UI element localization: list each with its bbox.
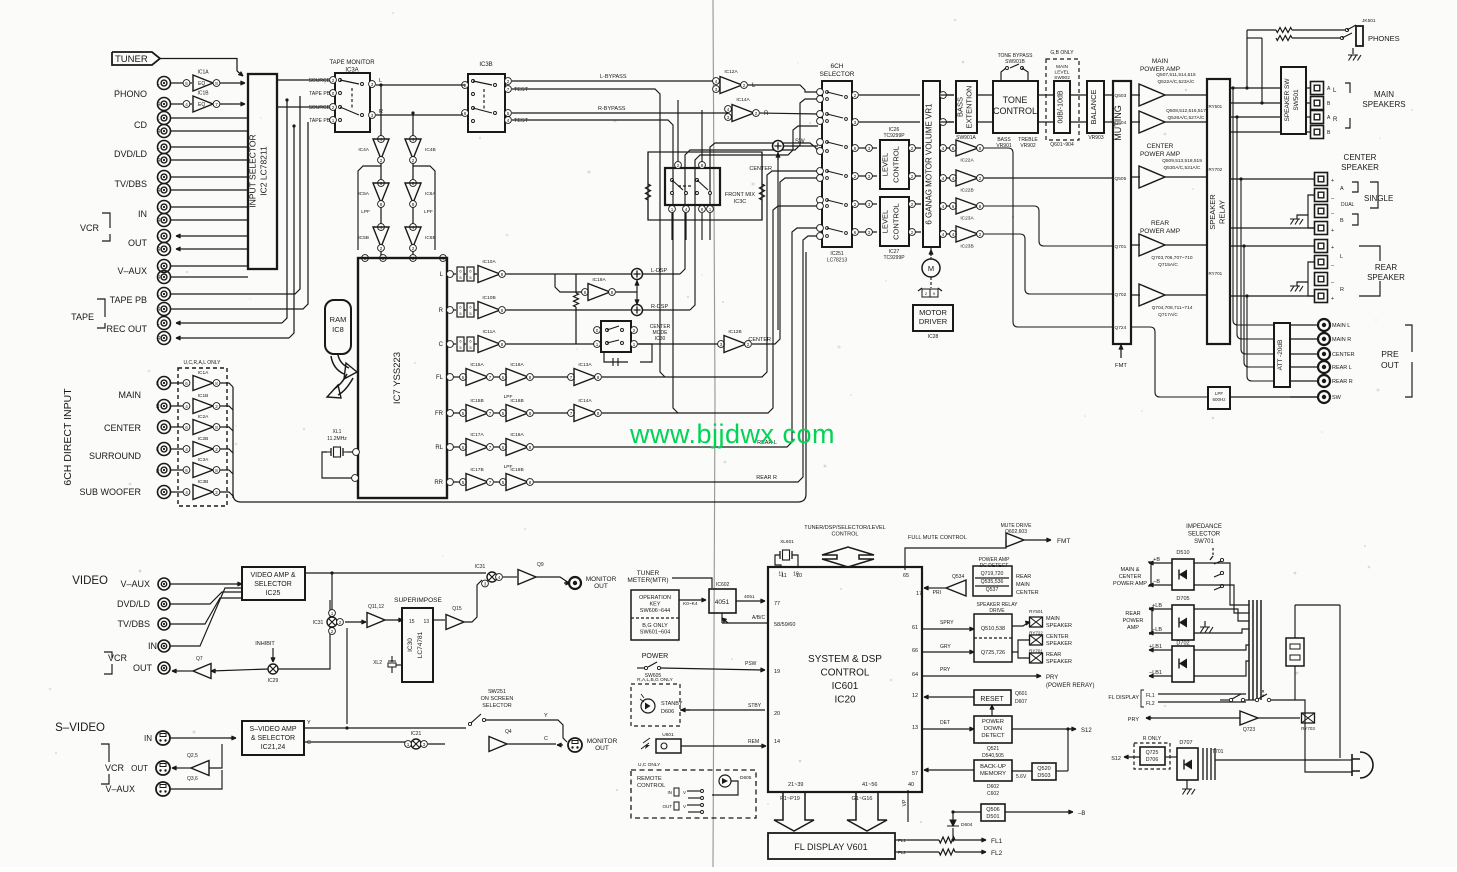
- svg-text:LPF: LPF: [361, 209, 370, 215]
- svg-text:FL: FL: [436, 375, 444, 381]
- svg-text:6: 6: [185, 425, 188, 430]
- svg-text:4: 4: [727, 107, 730, 112]
- svg-text:+: +: [1331, 178, 1334, 184]
- svg-text:D605: D605: [740, 775, 752, 781]
- svg-text:5: 5: [185, 81, 188, 86]
- svg-text:3: 3: [868, 230, 871, 235]
- svg-text:IC28: IC28: [928, 334, 939, 340]
- svg-text:4: 4: [185, 447, 188, 452]
- svg-text:Q506: Q506: [986, 807, 999, 813]
- svg-text:MEMORY: MEMORY: [980, 771, 1006, 777]
- svg-text:0: 0: [332, 91, 335, 96]
- svg-text:IN: IN: [144, 734, 152, 743]
- svg-text:XL1: XL1: [333, 429, 342, 435]
- svg-text:IC14A: IC14A: [578, 398, 592, 404]
- svg-text:FL2: FL2: [1146, 701, 1155, 707]
- svg-text:6CH DIRECT INPUT: 6CH DIRECT INPUT: [62, 388, 74, 486]
- svg-text:IC3C: IC3C: [734, 199, 747, 205]
- svg-text:IC10A: IC10A: [482, 259, 496, 265]
- svg-text:S–VIDEO AMP: S–VIDEO AMP: [249, 726, 296, 733]
- svg-text:8: 8: [215, 81, 218, 86]
- svg-text:REAR R: REAR R: [1332, 379, 1353, 385]
- svg-text:Q715A/C: Q715A/C: [1158, 262, 1178, 268]
- svg-text:OUT: OUT: [131, 764, 148, 773]
- svg-text:6: 6: [584, 290, 587, 295]
- svg-text:B,G ONLY: B,G ONLY: [642, 623, 668, 629]
- svg-text:G1~G16: G1~G16: [852, 796, 873, 802]
- svg-text:6CH: 6CH: [830, 63, 843, 70]
- svg-text:20: 20: [774, 711, 780, 717]
- svg-text:R: R: [157, 129, 161, 135]
- svg-text:3: 3: [720, 342, 723, 347]
- svg-text:CENTER: CENTER: [1344, 153, 1377, 162]
- svg-text:3: 3: [868, 146, 871, 151]
- svg-text:CONTROL: CONTROL: [892, 203, 901, 240]
- svg-text:8: 8: [215, 468, 218, 473]
- svg-text:+LB: +LB: [1152, 603, 1162, 609]
- svg-text:FMT: FMT: [1115, 363, 1127, 369]
- svg-text:8: 8: [701, 207, 704, 212]
- svg-text:–B: –B: [1078, 811, 1085, 817]
- svg-text:SW: SW: [1332, 395, 1342, 401]
- svg-text:IC1A: IC1A: [198, 370, 209, 376]
- svg-text:2: 2: [755, 111, 758, 116]
- svg-text:IC30: IC30: [655, 336, 666, 342]
- svg-text:Q505: Q505: [1115, 176, 1127, 182]
- svg-text:L: L: [1340, 254, 1343, 260]
- svg-text:OUT: OUT: [1381, 360, 1399, 370]
- svg-text:77: 77: [774, 601, 780, 607]
- svg-text:C: C: [439, 342, 444, 348]
- svg-text:B: B: [1340, 218, 1344, 224]
- svg-text:STBY: STBY: [748, 703, 762, 709]
- svg-text:A: A: [1340, 186, 1344, 192]
- svg-text:IC22A: IC22A: [960, 158, 974, 164]
- svg-text:R: R: [764, 111, 769, 117]
- svg-text:MAIN &: MAIN &: [1121, 567, 1140, 573]
- svg-text:DRIVE: DRIVE: [989, 608, 1005, 614]
- svg-text:EQ: EQ: [198, 81, 205, 87]
- svg-text:CENTER: CENTER: [1147, 143, 1174, 150]
- svg-text:1: 1: [709, 207, 712, 212]
- svg-text:IC25: IC25: [266, 590, 281, 597]
- svg-text:PRY: PRY: [1046, 675, 1058, 681]
- svg-text:EXTENTION: EXTENTION: [965, 86, 974, 129]
- svg-text:IC601: IC601: [832, 681, 859, 692]
- svg-text:REC OUT: REC OUT: [107, 324, 148, 334]
- svg-text:8: 8: [529, 480, 532, 485]
- svg-text:PRY: PRY: [1128, 717, 1140, 723]
- svg-text:R: R: [156, 469, 160, 475]
- svg-text:2: 2: [911, 146, 914, 151]
- svg-text:4: 4: [715, 79, 718, 84]
- svg-text:IC31: IC31: [475, 564, 486, 570]
- svg-text:RELAY: RELAY: [1218, 200, 1227, 224]
- svg-text:IC1B: IC1B: [198, 393, 209, 399]
- svg-text:8: 8: [380, 202, 383, 207]
- svg-text:LPF: LPF: [1215, 391, 1224, 396]
- svg-text:8: 8: [215, 425, 218, 430]
- svg-text:RY703: RY703: [1301, 726, 1315, 731]
- svg-text:INPUT SELECTOR: INPUT SELECTOR: [248, 134, 258, 207]
- svg-text:R-DSP: R-DSP: [651, 304, 668, 310]
- svg-text:2: 2: [380, 246, 383, 251]
- svg-text:D604: D604: [961, 822, 973, 828]
- svg-text:L: L: [157, 321, 160, 327]
- svg-text:58/59/60: 58/59/60: [774, 622, 795, 628]
- svg-text:2: 2: [380, 158, 383, 163]
- svg-text:Q521: Q521: [987, 746, 999, 752]
- svg-text:8: 8: [529, 445, 532, 450]
- svg-text:Q11,12: Q11,12: [368, 604, 384, 610]
- svg-text:4: 4: [507, 118, 510, 123]
- svg-text:MAIN: MAIN: [1056, 64, 1069, 70]
- svg-text:LPF: LPF: [504, 394, 513, 400]
- svg-text:S12: S12: [1081, 728, 1092, 734]
- svg-text:3: 3: [727, 115, 730, 120]
- svg-text:8: 8: [597, 375, 600, 380]
- svg-text:TAPE PB: TAPE PB: [110, 295, 147, 305]
- svg-text:U,C,R,A,L ONLY: U,C,R,A,L ONLY: [184, 360, 222, 366]
- svg-text:3: 3: [423, 742, 426, 747]
- svg-text:IC3B: IC3B: [198, 479, 209, 485]
- svg-text:SOURCE: SOURCE: [309, 78, 331, 84]
- svg-text:IN: IN: [148, 641, 157, 651]
- svg-text:Q15: Q15: [452, 606, 462, 612]
- svg-text:+: +: [1331, 245, 1334, 251]
- svg-text:61: 61: [912, 625, 918, 631]
- svg-text:1: 1: [407, 742, 410, 747]
- svg-text:LPF: LPF: [504, 464, 513, 470]
- svg-text:Q3,6: Q3,6: [187, 776, 198, 782]
- svg-text:D540,505: D540,505: [982, 753, 1004, 759]
- svg-text:V: V: [683, 804, 686, 809]
- svg-text:1: 1: [332, 118, 335, 123]
- svg-text:RY701: RY701: [1029, 649, 1043, 654]
- svg-text:4: 4: [952, 232, 955, 237]
- svg-text:14: 14: [774, 739, 780, 745]
- svg-text:SURROUND: SURROUND: [89, 451, 142, 461]
- svg-text:2: 2: [854, 174, 857, 179]
- svg-text:POWER AMP: POWER AMP: [1140, 151, 1180, 158]
- svg-text:SELECTOR: SELECTOR: [820, 71, 855, 78]
- svg-text:Y: Y: [307, 720, 311, 726]
- svg-text:R: R: [1333, 117, 1338, 123]
- svg-text:IC12B: IC12B: [728, 329, 741, 335]
- svg-text:7: 7: [489, 445, 492, 450]
- svg-text:57: 57: [912, 771, 918, 777]
- svg-text:VCR: VCR: [108, 653, 128, 663]
- svg-text:MONITOR: MONITOR: [586, 576, 617, 583]
- svg-text:R: R: [157, 247, 161, 253]
- svg-text:G,B ONLY: G,B ONLY: [1050, 50, 1074, 56]
- svg-text:IC11A: IC11A: [483, 329, 497, 335]
- svg-text:IC17A: IC17A: [470, 432, 484, 438]
- svg-text:REAR L: REAR L: [1332, 365, 1352, 371]
- svg-text:L-DSP: L-DSP: [651, 268, 668, 274]
- svg-text:L: L: [156, 447, 159, 453]
- svg-text:DVD/LD: DVD/LD: [114, 149, 148, 159]
- svg-text:D705: D705: [1176, 596, 1189, 602]
- svg-text:MOTOR: MOTOR: [919, 308, 947, 317]
- svg-text:LEVEL: LEVEL: [881, 153, 890, 176]
- svg-text:STANBY: STANBY: [661, 701, 683, 707]
- svg-text:EQ: EQ: [198, 102, 205, 108]
- svg-text:CONTROL: CONTROL: [832, 532, 859, 538]
- svg-text:DETECT: DETECT: [981, 733, 1005, 739]
- svg-text:5: 5: [507, 111, 510, 116]
- svg-text:SPEAKER SW: SPEAKER SW: [1284, 78, 1291, 122]
- svg-text:4: 4: [942, 146, 945, 151]
- svg-text:OUT: OUT: [663, 804, 673, 809]
- svg-text:MONITOR: MONITOR: [587, 738, 618, 745]
- svg-text:11.2MHz: 11.2MHz: [327, 436, 347, 442]
- svg-text:RAM: RAM: [330, 315, 347, 324]
- svg-text:D503: D503: [1037, 773, 1050, 779]
- svg-text:TV/DBS: TV/DBS: [117, 619, 150, 629]
- svg-text:S–VIDEO: S–VIDEO: [55, 722, 105, 734]
- svg-text:POWER AMP: POWER AMP: [1140, 66, 1180, 73]
- svg-text:13: 13: [912, 725, 918, 731]
- svg-text:4: 4: [185, 490, 188, 495]
- svg-text:TONE: TONE: [1003, 95, 1028, 105]
- svg-text:LPF: LPF: [424, 209, 433, 215]
- svg-text:Q7: Q7: [196, 656, 203, 662]
- svg-text:40: 40: [908, 782, 914, 788]
- svg-text:FULL MUTE CONTROL: FULL MUTE CONTROL: [908, 535, 967, 541]
- svg-text:SPEAKER: SPEAKER: [1367, 273, 1405, 282]
- svg-text:IC1B: IC1B: [197, 91, 209, 97]
- svg-text:600Hz: 600Hz: [1212, 397, 1226, 402]
- svg-text:L: L: [157, 205, 160, 211]
- svg-text:M: M: [928, 264, 934, 273]
- svg-text:Q719,720: Q719,720: [981, 571, 1004, 577]
- svg-text:IC2 LC78211: IC2 LC78211: [259, 146, 269, 196]
- svg-text:6: 6: [854, 230, 857, 235]
- svg-text:7: 7: [507, 87, 510, 92]
- svg-text:CENTER: CENTER: [749, 166, 772, 172]
- svg-text:L: L: [157, 81, 160, 87]
- svg-text:–B: –B: [1153, 579, 1160, 585]
- svg-text:FL DISPLAY V601: FL DISPLAY V601: [794, 842, 867, 852]
- svg-text:2: 2: [331, 629, 334, 634]
- svg-text:5: 5: [462, 411, 465, 416]
- svg-text:4: 4: [685, 207, 688, 212]
- svg-text:7: 7: [570, 411, 573, 416]
- svg-text:DOWN: DOWN: [984, 726, 1002, 732]
- svg-text:2: 2: [215, 490, 218, 495]
- svg-text:15: 15: [409, 619, 415, 625]
- svg-text:IC2B: IC2B: [198, 436, 209, 442]
- svg-text:K0~K4: K0~K4: [683, 601, 698, 607]
- svg-text:PHONES: PHONES: [1368, 34, 1400, 43]
- svg-text:IC5A: IC5A: [358, 191, 369, 197]
- svg-text:D501: D501: [986, 814, 999, 820]
- svg-text:6: 6: [952, 204, 955, 209]
- svg-text:LC74781: LC74781: [417, 631, 424, 658]
- svg-text:IC23B: IC23B: [960, 244, 973, 250]
- svg-text:R: R: [157, 218, 161, 224]
- svg-text:64: 64: [912, 672, 918, 678]
- svg-text:IC18A: IC18A: [510, 432, 524, 438]
- svg-text:IC22B: IC22B: [960, 188, 973, 194]
- svg-text:SPRY: SPRY: [940, 620, 954, 626]
- svg-text:IN: IN: [668, 790, 673, 795]
- svg-text:8: 8: [501, 308, 504, 313]
- svg-text:CD: CD: [134, 120, 147, 130]
- svg-text:Q522A/C,523A/C: Q522A/C,523A/C: [1157, 79, 1195, 85]
- svg-text:8: 8: [597, 411, 600, 416]
- svg-text:2: 2: [507, 79, 510, 84]
- svg-text:ON SCREEN: ON SCREEN: [481, 696, 514, 702]
- svg-text:RY702: RY702: [1209, 167, 1223, 172]
- svg-text:10: 10: [796, 573, 802, 579]
- svg-text:GRY: GRY: [940, 644, 951, 650]
- svg-text:Q507,511,514,515: Q507,511,514,515: [1156, 72, 1196, 78]
- svg-text:Q724: Q724: [1115, 325, 1127, 331]
- svg-text:3: 3: [868, 202, 871, 207]
- svg-text:RR: RR: [434, 480, 443, 486]
- svg-text:POWER: POWER: [1123, 618, 1144, 624]
- svg-text:DET: DET: [940, 720, 950, 726]
- svg-text:MAIN: MAIN: [1046, 616, 1060, 622]
- svg-text:66: 66: [912, 648, 918, 654]
- svg-text:Q503: Q503: [1115, 93, 1127, 99]
- svg-text:4: 4: [185, 102, 188, 107]
- svg-text:FL2: FL2: [991, 850, 1003, 857]
- svg-text:1: 1: [633, 342, 636, 347]
- svg-text:SYSTEM & DSP: SYSTEM & DSP: [808, 654, 882, 665]
- svg-text:Q601~904: Q601~904: [1050, 142, 1074, 148]
- svg-text:PRE: PRE: [1381, 349, 1399, 359]
- svg-text:MAIN: MAIN: [119, 390, 142, 400]
- svg-text:Q704,708,711~714: Q704,708,711~714: [1152, 305, 1193, 311]
- svg-text:+: +: [1331, 296, 1334, 302]
- svg-text:TAPE PB: TAPE PB: [309, 118, 330, 124]
- svg-text:+: +: [1331, 228, 1334, 234]
- svg-text:CENTER: CENTER: [1332, 352, 1355, 358]
- svg-text:DVD/LD: DVD/LD: [117, 599, 151, 609]
- svg-text:D606: D606: [661, 709, 674, 715]
- svg-text:SPEAKERS: SPEAKERS: [1362, 100, 1405, 109]
- svg-text:FRONT MIX: FRONT MIX: [725, 192, 755, 198]
- svg-text:5: 5: [502, 411, 505, 416]
- svg-text:TV/DBS: TV/DBS: [114, 179, 147, 189]
- svg-text:R ONLY: R ONLY: [1143, 736, 1162, 742]
- svg-text:VIDEO AMP &: VIDEO AMP &: [251, 572, 296, 579]
- svg-text:KEY: KEY: [649, 602, 660, 608]
- svg-text:L: L: [379, 78, 382, 84]
- svg-text:RESET: RESET: [980, 696, 1004, 703]
- svg-text:8: 8: [501, 272, 504, 277]
- svg-text:2: 2: [911, 202, 914, 207]
- svg-text:R-BYPASS: R-BYPASS: [598, 106, 626, 112]
- svg-text:D706: D706: [1146, 757, 1159, 763]
- svg-text:Q725: Q725: [1146, 750, 1159, 756]
- svg-text:2: 2: [911, 174, 914, 179]
- svg-text:REAR: REAR: [1046, 652, 1061, 658]
- svg-text:AMP: AMP: [1127, 625, 1139, 631]
- svg-text:4: 4: [952, 176, 955, 181]
- svg-text:SELECTOR: SELECTOR: [1188, 532, 1221, 538]
- svg-text:MAIN: MAIN: [1016, 582, 1030, 588]
- svg-text:SUB WOOFER: SUB WOOFER: [79, 487, 141, 497]
- svg-text:3: 3: [868, 174, 871, 179]
- svg-text:FMT: FMT: [1057, 538, 1070, 545]
- svg-text:RY501: RY501: [1209, 104, 1223, 109]
- svg-text:REAR: REAR: [1125, 611, 1140, 617]
- svg-text:L: L: [157, 234, 160, 240]
- svg-text:8: 8: [529, 411, 532, 416]
- svg-text:5: 5: [462, 445, 465, 450]
- svg-text:2: 2: [911, 230, 914, 235]
- svg-text:8: 8: [979, 204, 982, 209]
- svg-text:Q534: Q534: [952, 574, 964, 580]
- svg-text:4: 4: [942, 176, 945, 181]
- svg-text:4: 4: [185, 404, 188, 409]
- svg-text:5: 5: [854, 146, 857, 151]
- svg-text:METER(MTR): METER(MTR): [627, 577, 668, 584]
- svg-text:IC3B: IC3B: [479, 62, 492, 68]
- svg-text:SPEAKER: SPEAKER: [1341, 163, 1379, 172]
- svg-text:U601: U601: [662, 732, 674, 738]
- svg-text:IC4A: IC4A: [358, 147, 369, 153]
- svg-text:TEST: TEST: [514, 118, 529, 124]
- svg-text:REM: REM: [748, 739, 759, 745]
- svg-text:INHIBIT: INHIBIT: [255, 641, 275, 647]
- svg-text:VR901: VR901: [996, 143, 1012, 149]
- svg-text:5: 5: [502, 375, 505, 380]
- svg-text:2: 2: [979, 232, 982, 237]
- svg-text:OUT: OUT: [595, 745, 609, 752]
- svg-text:8: 8: [611, 290, 614, 295]
- svg-text:IC7 YSS223: IC7 YSS223: [392, 352, 403, 404]
- svg-text:7: 7: [489, 411, 492, 416]
- svg-text:IC12A: IC12A: [724, 69, 738, 75]
- svg-text:CONTROL: CONTROL: [821, 668, 870, 679]
- svg-text:Q535,536: Q535,536: [981, 579, 1004, 585]
- svg-text:MAIN: MAIN: [1374, 90, 1394, 99]
- svg-text:Q703,706,707~710: Q703,706,707~710: [1151, 255, 1193, 261]
- svg-text:IC19A: IC19A: [592, 277, 606, 283]
- svg-text:P1~P19: P1~P19: [780, 796, 800, 802]
- svg-text:Q504: Q504: [1115, 120, 1127, 126]
- svg-text:3: 3: [371, 113, 374, 118]
- svg-text:7: 7: [215, 102, 218, 107]
- svg-text:7: 7: [489, 480, 492, 485]
- svg-text:U,C ONLY: U,C ONLY: [638, 762, 661, 768]
- svg-text:RY722: RY722: [1029, 631, 1043, 636]
- svg-text:D707: D707: [1179, 740, 1192, 746]
- svg-text:IC23A: IC23A: [960, 216, 974, 222]
- svg-text:5: 5: [502, 480, 505, 485]
- svg-text:13: 13: [423, 619, 429, 625]
- svg-text:REAR: REAR: [1375, 263, 1397, 272]
- svg-text:SW901A: SW901A: [956, 135, 976, 141]
- svg-text:7: 7: [570, 375, 573, 380]
- svg-text:OUT: OUT: [133, 663, 153, 673]
- svg-text:Q530A/C,531A/C: Q530A/C,531A/C: [1163, 165, 1201, 171]
- svg-text:TUNER: TUNER: [637, 570, 660, 577]
- svg-text:DRIVER: DRIVER: [919, 317, 948, 326]
- svg-text:MAIN R: MAIN R: [1332, 337, 1351, 343]
- svg-text:TAPE PB: TAPE PB: [309, 91, 330, 97]
- svg-text:IC4B: IC4B: [425, 147, 436, 153]
- svg-text:Q537: Q537: [986, 587, 999, 593]
- svg-text:SW251: SW251: [488, 689, 506, 695]
- svg-text:R,A,L,B,G ONLY: R,A,L,B,G ONLY: [637, 677, 673, 683]
- svg-text:6: 6: [952, 146, 955, 151]
